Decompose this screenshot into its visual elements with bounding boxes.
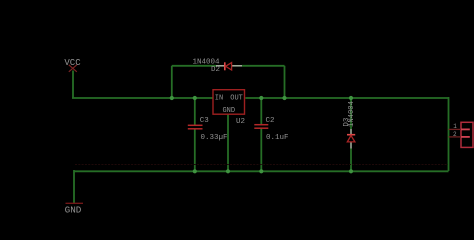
junction top at D3 [349, 96, 353, 100]
junction rail at C2 [259, 169, 263, 173]
svg-text:0.1uF: 0.1uF [266, 134, 289, 142]
wire D2 branch right horizontal [242, 65, 285, 67]
svg-text:GND: GND [222, 107, 235, 115]
wire top horizontal right (U2 OUT to right) [245, 97, 448, 99]
wire C2 top lead [260, 98, 262, 125]
svg-text:GND: GND [65, 204, 82, 215]
wire C3 bottom lead [194, 129, 196, 171]
supply VCC [64, 58, 81, 72]
connector pin 1 [449, 128, 462, 130]
svg-text:VCC: VCC [64, 58, 81, 68]
wire C2 bottom lead [260, 128, 262, 171]
wire D2 branch down [284, 66, 286, 98]
svg-text:C2: C2 [266, 117, 275, 125]
wire bottom GND rail [74, 170, 449, 172]
wire D3 bottom lead [350, 149, 352, 172]
wire VCC vertical [72, 71, 74, 99]
junction rail at U2 GND [226, 169, 230, 173]
svg-text:1N4004: 1N4004 [348, 101, 356, 127]
junction rail at C3 [193, 169, 197, 173]
wire top horizontal left (VCC to U2 IN) [72, 97, 213, 99]
pin U2 GND lead [227, 114, 229, 171]
connector JP1 box [461, 122, 473, 147]
wire D3 top lead [350, 98, 352, 129]
junction top at C2 [259, 96, 263, 100]
connector pin 2 [449, 136, 462, 138]
pin D3 anode stub [350, 142, 352, 149]
pin D2 anode stub left [216, 65, 224, 67]
dashed net line above GND rail [75, 164, 448, 166]
diode D3 symbol [347, 135, 355, 142]
svg-text:U2: U2 [236, 118, 245, 126]
pin D3 cathode stub [350, 129, 352, 135]
wire D2 branch left horizontal [172, 65, 216, 67]
supply GND [65, 203, 83, 215]
junction top at D2 return [282, 96, 286, 100]
capacitor C3 symbol [188, 125, 203, 129]
wire right vertical [448, 97, 450, 171]
junction top at D2 branch [170, 96, 174, 100]
junction rail at D3 [349, 169, 353, 173]
svg-text:2: 2 [453, 131, 457, 138]
junction top at C3 [193, 96, 197, 100]
svg-text:D2: D2 [211, 66, 220, 74]
svg-text:C3: C3 [200, 117, 210, 125]
wire GND vertical [73, 170, 75, 203]
diode D2 symbol [225, 62, 232, 70]
svg-text:IN: IN [215, 95, 223, 103]
svg-text:1: 1 [453, 123, 457, 130]
svg-text:OUT: OUT [230, 95, 243, 103]
wire D2 branch up [171, 66, 173, 98]
capacitor C2 symbol [254, 125, 268, 129]
pin D2 cathode stub right [232, 65, 242, 67]
regulator U2 box [213, 90, 245, 115]
wire C3 top lead [194, 98, 196, 125]
svg-text:0.33µF: 0.33µF [201, 134, 228, 142]
